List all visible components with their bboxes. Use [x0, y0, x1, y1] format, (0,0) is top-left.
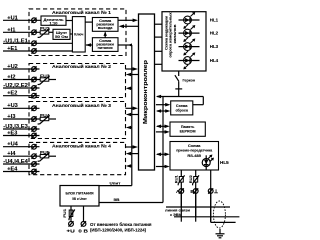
analog channel 3 dashed box [29, 102, 126, 139]
terminal circle +U [69, 221, 74, 226]
wire MCU to ch2 control (arrow) [126, 73, 139, 77]
svg-text:БЛОК ПИТАНИЯ: БЛОК ПИТАНИЯ [66, 191, 94, 196]
svg-text:+I4: +I4 [7, 151, 15, 157]
LED HL4 [179, 60, 200, 62]
fuse FU3 [38, 76, 50, 85]
svg-text:с ЭВМ: с ЭВМ [170, 213, 182, 217]
indication block [162, 12, 206, 71]
wire MCU to indication 2 [155, 36, 163, 38]
wire -U2,I2,E2 [3, 87, 40, 89]
svg-text:+I3: +I3 [7, 114, 15, 120]
svg-text:HL5: HL5 [220, 160, 229, 165]
wire ch3 output to MCU (arrow) [126, 107, 139, 111]
fuse FU4 [38, 115, 50, 124]
terminal circle +I1 [32, 30, 37, 35]
wire MCU-RS485 ctrl (arrow) [156, 165, 170, 169]
wire shunt to key [70, 33, 72, 35]
svg-text:HL1: HL1 [210, 17, 219, 22]
wire divider to key [66, 20, 72, 22]
svg-text:HL4: HL4 [210, 58, 219, 63]
power bus vertical Upit [131, 45, 133, 186]
svg-text:Аналоговый канал № 1: Аналоговый канал № 1 [52, 9, 111, 15]
svg-text:-U4,I4,E4: -U4,I4,E4 [3, 159, 28, 165]
wire +U2 [3, 68, 40, 70]
svg-text:+E4: +E4 [7, 166, 17, 172]
terminal circle +I4 [32, 154, 37, 159]
RS-485 transceiver block [170, 142, 219, 171]
svg-text:HL3: HL3 [210, 44, 219, 49]
terminal circle +E2 [32, 93, 37, 98]
wire MCU-EEPROM clock (arrow) [156, 130, 170, 134]
arrow power isolation to output isolation [104, 31, 107, 37]
svg-text:Аналоговый канал № 2: Аналоговый канал № 2 [52, 63, 111, 69]
wire B to cable [174, 216, 239, 218]
wire MCU to indication 4 [155, 63, 163, 65]
wire +I2 [3, 79, 40, 81]
svg-text:+U: +U [66, 228, 75, 233]
wire A vertical to turn [180, 193, 182, 207]
terminal circle ground [208, 188, 213, 193]
svg-text:Схема: Схема [176, 104, 189, 108]
wire reset to MCU bottom (arrows) [156, 109, 171, 113]
svg-text:Память: Память [181, 125, 195, 129]
LED HL2 [179, 32, 200, 34]
wire MCU to reset top (arrow) [156, 103, 171, 107]
power supply Upit wire [99, 185, 132, 187]
analog channel 1 dashed box [29, 9, 126, 56]
svg-text:RS-485: RS-485 [187, 154, 201, 158]
svg-text:FU5: FU5 [40, 150, 50, 155]
earth ground symbol [216, 229, 225, 238]
svg-text:EEPROM: EEPROM [180, 130, 196, 134]
LED HL5 [205, 155, 207, 170]
svg-text:+E3: +E3 [7, 130, 17, 136]
wire +I3 [3, 118, 40, 120]
terminal circle -U3,I3,E3 [32, 126, 37, 131]
divider block 1:10 ch1 [41, 16, 66, 25]
svg-text:+I1: +I1 [7, 27, 15, 33]
svg-text:Uпит: Uпит [110, 180, 121, 185]
power supply 5V wire [99, 202, 163, 204]
svg-text:FU3: FU3 [40, 73, 50, 78]
svg-text:+U1: +U1 [7, 15, 18, 21]
analog channel 2 dashed box [29, 64, 126, 98]
wire -U3,I3,E3 [3, 128, 40, 130]
svg-text:От внешнего блока питания: От внешнего блока питания [90, 222, 152, 227]
fuse FU5 [38, 153, 50, 162]
terminal circle -U2,I2,E2 [32, 85, 37, 90]
wire MCU to ch4 control (arrow) [126, 152, 139, 156]
wire RS485 line B down [195, 170, 197, 222]
svg-text:питания: питания [98, 46, 113, 50]
svg-text:А: А [176, 189, 180, 195]
reed switch contact [175, 75, 182, 96]
wire MCU-RS485 data (double arrow) [156, 153, 170, 157]
reset circuit block [171, 101, 193, 115]
svg-text:+E1: +E1 [7, 46, 17, 52]
svg-text:линия связи: линия связи [165, 209, 191, 213]
wire +E3 [3, 135, 40, 137]
wire +I1 [3, 31, 40, 33]
terminal circle 0V [81, 221, 86, 226]
wire power bus to ch3 (arrow) [126, 126, 132, 130]
wire RS485 line A down [180, 170, 182, 222]
svg-text:выхода: выхода [98, 26, 113, 30]
fuse FU2 [38, 29, 50, 38]
LED HL1 [179, 19, 200, 21]
terminal circle +I2 [32, 77, 37, 82]
svg-text:Схема: Схема [188, 144, 202, 148]
wire ground to cable [211, 221, 236, 223]
varistor RU1 [178, 175, 184, 185]
svg-text:Микроконтроллер: Микроконтроллер [143, 59, 149, 124]
wire MCU to ch1 control (arrow) [119, 25, 139, 29]
wire ch1 output to MCU (arrow) [118, 19, 138, 23]
power supply block [60, 186, 99, 207]
svg-text:(ИБП-1200/2400, ИБП-1224): (ИБП-1200/2400, ИБП-1224) [90, 227, 147, 232]
svg-text:1:10: 1:10 [50, 22, 58, 26]
key block ch1 [72, 17, 85, 52]
svg-text:-U3,I3,E3: -U3,I3,E3 [3, 124, 28, 130]
svg-text:Аналоговый канал № 3: Аналоговый канал № 3 [52, 102, 111, 108]
wire gerkon line to MCU (arrow) [156, 95, 203, 99]
reed switch wire from indication block [178, 71, 180, 76]
terminal circle -U1,I1,E1 [32, 41, 37, 46]
analog channel 4 dashed box [29, 142, 126, 174]
wire +U4 [3, 146, 40, 148]
terminal circle +E3 [32, 133, 37, 138]
wire -U4,I4,E4 [3, 163, 40, 165]
svg-text:приемо-передатчика: приемо-передатчика [176, 149, 213, 153]
5V riser wire [162, 97, 164, 203]
wire MCU to indication 3 [155, 50, 163, 52]
terminal circle +U3 [32, 106, 37, 111]
EEPROM memory block [170, 122, 205, 136]
terminal circle +U2 [32, 66, 37, 71]
wire +E4 [3, 171, 40, 173]
svg-text:HL2: HL2 [210, 31, 219, 36]
svg-text:+U4: +U4 [7, 142, 18, 148]
microcontroller block U1 [139, 14, 155, 170]
svg-text:-U1,I1,E1: -U1,I1,E1 [3, 38, 28, 44]
power isolation block ch1 [92, 38, 118, 52]
wire MCU to indication 1 [155, 23, 163, 25]
wire A to cable [166, 206, 230, 208]
wire power bus to ch4 (arrow) [126, 164, 132, 168]
fuse FU1 [69, 210, 75, 221]
wire key to output isolation [85, 21, 92, 23]
wire power bus to ch2 (arrow) [126, 87, 132, 91]
svg-text:каналов: каналов [173, 24, 177, 44]
output isolation block ch1 [92, 18, 118, 32]
svg-text:+U3: +U3 [7, 103, 18, 109]
terminal circle -U4,I4,E4 [32, 161, 37, 166]
svg-text:+U2: +U2 [7, 64, 18, 70]
wire MCU-EEPROM data (double arrow) [156, 125, 170, 129]
terminal circle +U1 [32, 18, 37, 23]
terminal circle +U4 [32, 144, 37, 149]
wire -U1,I1,E1 [3, 42, 72, 44]
wire ground vertical to turn [210, 193, 212, 222]
wire MCU to ch3 control (arrow) [126, 113, 139, 117]
svg-text:0 В: 0 В [78, 228, 88, 233]
svg-text:RU2: RU2 [189, 175, 193, 183]
wire power isolation to key (arrow) [85, 43, 92, 47]
svg-text:5В: 5В [114, 197, 120, 202]
wire power block to +U terminal [70, 206, 72, 222]
wire power bus to ch1 power isolation (arrow) [118, 43, 132, 46]
svg-text:Геркон: Геркон [183, 78, 196, 83]
wire ch4 output to MCU (arrow) [126, 145, 139, 149]
terminal circle +I3 [32, 116, 37, 121]
shunt block 50 Ohm ch1 [53, 29, 70, 39]
svg-text:FU2: FU2 [40, 26, 50, 31]
wire RS485 ground down [210, 170, 212, 222]
svg-text:FU4: FU4 [40, 113, 50, 118]
wire +U3 [3, 107, 40, 109]
terminal circle +E1 [32, 48, 37, 53]
wire power block to 0V terminal [83, 206, 85, 222]
svg-text:50 Ом: 50 Ом [55, 35, 68, 39]
terminal circle A [179, 188, 184, 193]
wire gerkon loop down to reset [193, 97, 204, 105]
varistor RU2 [193, 175, 199, 185]
terminal circle B [193, 188, 198, 193]
svg-text:Ключ: Ключ [74, 32, 83, 36]
svg-text:сброса: сброса [175, 108, 188, 112]
svg-text:-U2,I2,E2: -U2,I2,E2 [3, 83, 28, 89]
wire +U1 [3, 19, 41, 21]
wire +E2 [3, 95, 40, 97]
svg-text:FU1: FU1 [63, 209, 67, 218]
cable ellipse [213, 201, 225, 228]
svg-text:5В и Uпит: 5В и Uпит [72, 196, 87, 201]
wire ch2 output to MCU (arrow) [126, 67, 139, 71]
LED HL3 [179, 46, 200, 48]
svg-text:+I2: +I2 [7, 74, 15, 80]
terminal circle +E4 [32, 169, 37, 174]
svg-text:⊥: ⊥ [214, 189, 219, 195]
wire +E1 [3, 50, 72, 52]
wire +I4 [3, 155, 40, 157]
svg-text:Аналоговый канал № 4: Аналоговый канал № 4 [52, 142, 111, 148]
svg-text:В: В [190, 189, 194, 195]
wire B vertical to turn [195, 193, 197, 217]
svg-text:+E2: +E2 [7, 91, 17, 97]
svg-text:RU1: RU1 [175, 175, 179, 183]
